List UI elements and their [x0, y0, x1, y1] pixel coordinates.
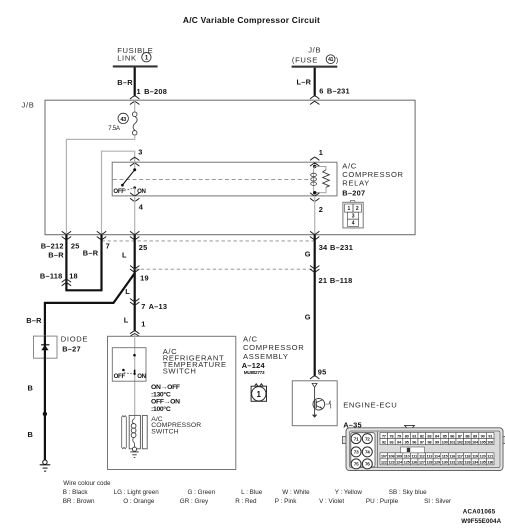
svg-text:B: B	[28, 383, 34, 392]
U link bottom	[65, 289, 102, 291]
svg-text:SWITCH: SWITCH	[151, 429, 178, 436]
svg-text:GR : Grey: GR : Grey	[180, 498, 209, 505]
svg-text:B : Black: B : Black	[63, 489, 89, 496]
svg-text:R : Red: R : Red	[235, 498, 257, 505]
svg-text:120: 120	[480, 453, 487, 458]
connector B-118 pin 21 chevrons	[310, 266, 319, 273]
svg-text:71: 71	[354, 436, 359, 441]
svg-text:109: 109	[396, 453, 403, 458]
svg-text:102: 102	[457, 439, 464, 444]
relay switch contact (shown OFF)	[121, 162, 136, 195]
svg-text:121: 121	[487, 453, 494, 458]
svg-text:COMPRESSOR: COMPRESSOR	[243, 343, 304, 352]
connector B-118 pin 19 chevrons	[130, 266, 139, 273]
wire colour code legend	[63, 480, 451, 505]
svg-text:4: 4	[139, 203, 144, 212]
ENGINE-ECU box	[292, 381, 337, 426]
diode symbol	[41, 336, 49, 358]
svg-text:25: 25	[139, 243, 148, 252]
svg-text:ON→OFF: ON→OFF	[151, 384, 180, 391]
A/C compressor relay box	[112, 162, 337, 196]
svg-text:3: 3	[138, 148, 142, 157]
svg-text:OFF: OFF	[113, 188, 125, 195]
svg-text:73: 73	[354, 450, 359, 455]
connector B-118 dashed line	[135, 268, 315, 270]
ECU pin 95 chevron	[310, 376, 319, 379]
svg-text:W : White: W : White	[282, 489, 310, 496]
branch wire to diode: diagonal	[45, 273, 135, 336]
A/C refrigerant temperature switch label	[163, 347, 227, 376]
connector B-207 pin layout diagram	[343, 201, 363, 229]
svg-text:122: 122	[381, 459, 388, 464]
compressor switch ground	[130, 447, 139, 458]
ECU internal driver symbol	[312, 383, 331, 417]
svg-text:133: 133	[464, 459, 471, 464]
gray wire inside assembly	[134, 335, 136, 419]
svg-text:105: 105	[480, 439, 487, 444]
A/C compressor assembly box A-124	[108, 336, 236, 469]
bold wire B-R from B-212 pin 25 down (U link left leg)	[65, 235, 67, 290]
svg-text:7A–13: 7A–13	[141, 302, 167, 311]
svg-text:100: 100	[442, 439, 449, 444]
A/C refrigerant temperature switch box	[112, 348, 146, 382]
svg-text:107: 107	[381, 453, 388, 458]
svg-text:RELAY: RELAY	[342, 178, 370, 187]
svg-text:1: 1	[141, 320, 145, 329]
svg-text:L: L	[122, 251, 127, 260]
svg-text:101: 101	[449, 439, 456, 444]
diode label	[61, 335, 88, 354]
svg-text:130: 130	[442, 459, 449, 464]
diode B-27 box	[34, 336, 58, 358]
bold wire B from diode to ground	[44, 358, 46, 460]
svg-text:W9F55E004A: W9F55E004A	[461, 518, 501, 525]
connector A-124 pin 1 chevrons	[130, 331, 139, 337]
wire relay pin 4 to J/B bottom	[134, 196, 136, 235]
svg-text:MU802773: MU802773	[244, 370, 265, 375]
svg-text:L: L	[124, 316, 129, 325]
svg-text:LG : Light green: LG : Light green	[114, 489, 160, 496]
svg-text:B: B	[28, 430, 34, 439]
svg-text:): )	[336, 55, 339, 64]
A/C compressor relay label	[342, 162, 403, 198]
connector B-208 chevrons at J/B top	[130, 96, 139, 105]
svg-text:21B–118: 21B–118	[319, 276, 353, 285]
wire L-R from J/B fuse to J/B	[314, 68, 316, 96]
svg-text:131: 131	[449, 459, 456, 464]
fusible link 1 label	[117, 46, 153, 63]
svg-text:B–R: B–R	[117, 78, 133, 87]
bold wire L from J/B pin 25 to A/C compressor assembly	[134, 235, 136, 331]
wire relay pin 2 to J/B bottom	[314, 196, 316, 235]
svg-text:ASSEMBLY: ASSEMBLY	[243, 352, 289, 361]
connector B-231 dashed line	[102, 240, 315, 242]
svg-text:B–207: B–207	[342, 189, 365, 198]
fusible link bus bar	[113, 65, 158, 67]
A/C compressor assembly label	[242, 334, 305, 375]
U link right leg to pin 7	[100, 235, 102, 290]
svg-text:J/B: J/B	[308, 46, 321, 55]
svg-text:7: 7	[106, 242, 110, 251]
A/C compressor switch label	[151, 416, 201, 436]
svg-text:43: 43	[120, 117, 126, 123]
svg-text:OFF: OFF	[114, 373, 126, 380]
svg-text:SI : Silver: SI : Silver	[424, 498, 451, 505]
svg-text:A/C: A/C	[243, 334, 258, 343]
svg-text:25: 25	[71, 242, 80, 251]
pin 2 chevrons at relay box bottom	[310, 193, 319, 202]
A/C compressor switch (clutch coil)	[122, 415, 148, 448]
temperature threshold note	[151, 384, 180, 413]
svg-text:34B–231: 34B–231	[319, 243, 353, 252]
svg-text:J/B: J/B	[22, 101, 35, 110]
svg-text:B–212: B–212	[41, 242, 64, 251]
relay actuation dashed line	[113, 178, 309, 180]
svg-text::100°C: :100°C	[151, 405, 171, 413]
svg-text:125: 125	[404, 459, 411, 464]
svg-text:Wire colour code: Wire colour code	[63, 480, 111, 487]
svg-text:18: 18	[69, 271, 78, 280]
svg-text:G : Green: G : Green	[188, 489, 216, 496]
connector B-212 pin 25 chevrons	[62, 232, 71, 240]
svg-text:75: 75	[354, 462, 359, 467]
svg-text:B–118: B–118	[40, 271, 63, 280]
svg-text:(FUSE: (FUSE	[292, 55, 318, 64]
svg-text:134: 134	[472, 459, 479, 464]
wire inside J/B from B-208 to fuse 43	[134, 100, 136, 112]
pin 4 chevrons at relay box bottom	[130, 193, 139, 202]
connector B-231 pin 25 chevrons	[130, 232, 139, 240]
connector B-231 chevrons at J/B top	[310, 96, 319, 105]
svg-text:41: 41	[328, 57, 334, 63]
svg-text:PU : Purple: PU : Purple	[366, 498, 399, 505]
svg-text:19: 19	[140, 273, 149, 282]
svg-text:L–R: L–R	[297, 77, 312, 86]
svg-text:P : Pink: P : Pink	[275, 498, 297, 505]
connector B-118 pin 18 chevrons	[62, 279, 71, 286]
svg-text:V : Violet: V : Violet	[319, 498, 344, 505]
svg-text:BR : Brown: BR : Brown	[63, 498, 95, 505]
connector A-13 pin 7 chevrons	[130, 299, 139, 305]
svg-text:1: 1	[319, 148, 323, 157]
svg-text:76: 76	[365, 462, 370, 467]
svg-text:129: 129	[434, 459, 441, 464]
note symbol circled 1	[251, 384, 266, 402]
svg-text:136: 136	[487, 459, 494, 464]
svg-text:ENGINE-ECU: ENGINE-ECU	[343, 400, 397, 409]
svg-text:B–R: B–R	[48, 250, 64, 259]
svg-text:A/C Variable Compressor Circui: A/C Variable Compressor Circuit	[183, 15, 320, 25]
svg-text:124: 124	[396, 459, 403, 464]
svg-text:B–R: B–R	[83, 249, 99, 258]
pin 3 chevrons at relay box top	[130, 157, 139, 166]
fuse 43 7.5A	[108, 112, 137, 135]
svg-text:G: G	[305, 249, 311, 258]
svg-text:74: 74	[365, 450, 370, 455]
J/B (FUSE 41) label	[292, 46, 339, 65]
svg-text:ON: ON	[137, 373, 146, 380]
svg-text:A–124: A–124	[242, 361, 266, 370]
svg-text:B–R: B–R	[26, 316, 42, 325]
J/B fuse bus bar	[292, 66, 338, 68]
svg-text:128: 128	[426, 459, 433, 464]
bold wire G from J/B pin 34 to ENGINE-ECU	[314, 235, 316, 376]
svg-text:127: 127	[419, 459, 426, 464]
svg-text:SB : Sky blue: SB : Sky blue	[389, 489, 427, 496]
connector A-35 pin grid	[380, 433, 494, 465]
svg-text:1: 1	[256, 390, 261, 399]
pin 1 chevrons at relay box top	[310, 157, 319, 166]
svg-text:ACA01065: ACA01065	[463, 508, 496, 515]
svg-text:2: 2	[319, 205, 323, 214]
relay coil with parallel resistor	[311, 165, 330, 195]
temperature switch contact (shown ON)	[122, 354, 136, 375]
svg-text:L : Blue: L : Blue	[241, 489, 263, 496]
svg-text:95: 95	[318, 367, 327, 376]
svg-text:132: 132	[457, 459, 464, 464]
svg-text:104: 104	[472, 439, 479, 444]
svg-text:DIODE: DIODE	[61, 335, 88, 344]
wire from fuse 43 to B-212 pin 25	[66, 135, 134, 235]
svg-text:103: 103	[464, 439, 471, 444]
junction block J/B box	[45, 100, 415, 235]
svg-text:7.5A: 7.5A	[108, 125, 121, 132]
connector pin 7 chevrons	[97, 232, 106, 240]
connector B-231 pin 34 chevrons	[310, 232, 319, 240]
svg-text:OFF→ON: OFF→ON	[151, 399, 180, 406]
svg-text:106: 106	[487, 439, 494, 444]
svg-text:72: 72	[365, 436, 370, 441]
svg-text:SWITCH: SWITCH	[163, 367, 197, 376]
svg-text:O : Orange: O : Orange	[123, 498, 155, 505]
svg-text:123: 123	[388, 459, 395, 464]
wire B-R from fusible link to J/B	[134, 68, 136, 96]
svg-text:108: 108	[388, 453, 395, 458]
svg-text:L: L	[125, 287, 130, 296]
svg-text:LINK: LINK	[117, 54, 136, 63]
connector A-35 pin layout diagram	[342, 425, 505, 470]
svg-text::130°C: :130°C	[151, 390, 171, 398]
svg-text:Y : Yellow: Y : Yellow	[335, 489, 363, 496]
svg-text:126: 126	[411, 459, 418, 464]
wire junction dot	[43, 412, 47, 416]
ground symbol	[40, 460, 51, 471]
svg-text:G: G	[305, 312, 311, 321]
svg-text:135: 135	[480, 459, 487, 464]
wire node to relay switch pin 3 and J/B pin 7	[102, 151, 135, 234]
svg-text:B–27: B–27	[62, 344, 81, 353]
